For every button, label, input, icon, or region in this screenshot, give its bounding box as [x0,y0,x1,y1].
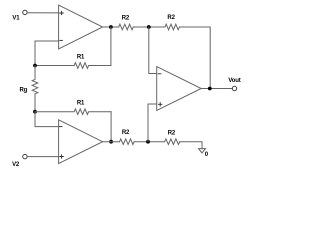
resistor Rg [32,66,38,112]
svg-text:Vout: Vout [228,78,240,84]
ground 0 [199,149,206,153]
svg-text:Rg: Rg [19,87,27,93]
pin - of U1 [60,39,63,41]
resistor R2 (bottom first) [120,139,135,145]
resistor R2 (top second, feedback) [165,24,179,30]
junction left bus / R1 / Rg (bottom) [33,110,37,114]
resistor R2 (bottom second, to ground) [165,139,180,145]
pin + of U1 [60,11,63,14]
wire R2 to node A [133,26,165,28]
terminal V2 [23,154,27,158]
wire R2 to node B [134,141,164,143]
pin + of U2 [60,155,63,158]
wire V1 to op-amp U1 + input [27,12,58,14]
svg-text:R1: R1 [77,54,85,60]
wire node B up to U3 + input [148,104,157,142]
junction U1 output feedback [109,25,113,29]
svg-text:R2: R2 [167,15,175,21]
svg-text:R2: R2 [122,16,130,22]
svg-text:R2: R2 [168,131,176,137]
svg-text:V1: V1 [12,15,20,21]
wire U3 output to Vout [201,88,232,90]
svg-text:V2: V2 [12,162,20,168]
junction U2 output feedback [109,140,113,144]
resistor R2 (top first) [119,24,134,30]
svg-text:R1: R1 [77,100,85,106]
junction left bus / R1 / Rg [33,64,37,68]
wire node A down to U3 - input [149,27,157,74]
terminal V1 [23,10,27,14]
op-amp U1 [59,5,103,49]
svg-text:0: 0 [205,152,209,158]
pin - of U3 [158,73,161,75]
pin - of U2 [59,126,62,128]
node A junction [147,25,151,29]
wire feedback vertical U2 [110,112,112,142]
op-amp U3 [157,67,202,111]
pin + of U3 [159,103,162,106]
wire R2 to ground [180,142,202,149]
svg-text:R2: R2 [122,130,130,136]
wire U2 inverting input to left bus [35,112,59,127]
op-amp U2 [59,120,103,164]
wire feedback vertical U1 [110,27,112,66]
wire U1 output to R2 [103,26,119,28]
resistor R1 (bottom) [35,109,111,115]
wire feedback to output [180,27,211,89]
terminal Vout [232,86,236,90]
resistor R1 (top) [35,63,111,69]
junction output / feedback [208,87,212,91]
node B junction [146,140,150,144]
wire U1 inverting input to left bus [35,41,59,66]
wire U2 output to R2 [103,141,120,143]
wire V2 to op-amp U2 + input [27,156,58,158]
